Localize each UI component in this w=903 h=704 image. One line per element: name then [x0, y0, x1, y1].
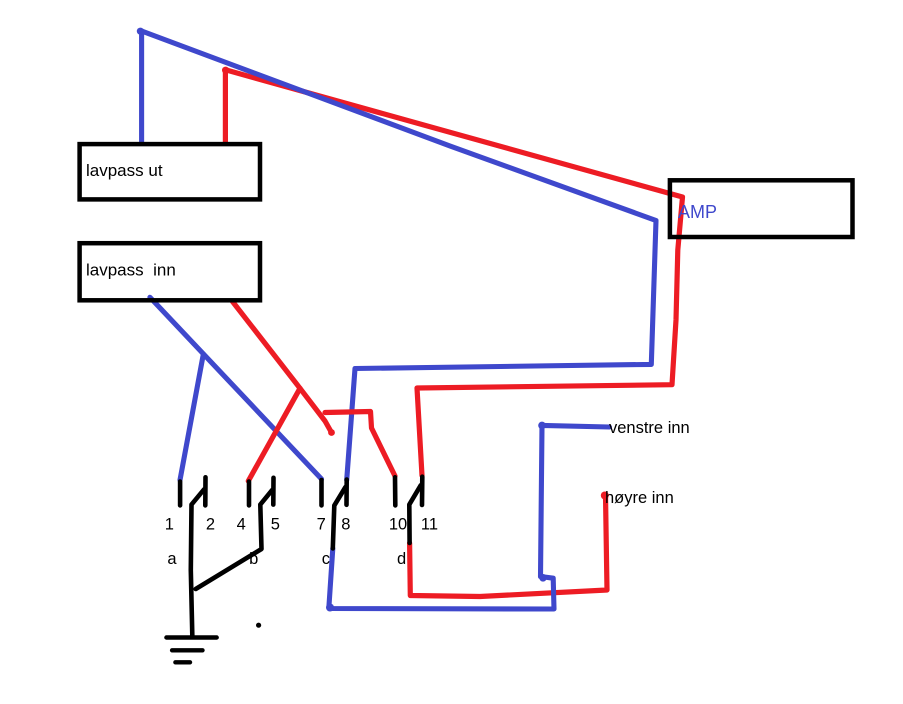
red stub end blob — [328, 429, 335, 436]
switch c pin 7 contact — [319, 480, 324, 505]
svg-text:7: 7 — [317, 516, 326, 534]
svg-text:AMP: AMP — [678, 202, 717, 222]
wire red: lavpass ut to AMP right channel — [225, 70, 682, 476]
red cap dot at hoyre inn — [601, 492, 609, 500]
switch b pin 5 contact — [271, 478, 276, 505]
svg-text:a: a — [167, 550, 177, 568]
switch d pin 10 contact — [393, 477, 398, 505]
ground bar 1 — [166, 635, 216, 639]
box AMP — [670, 180, 853, 237]
svg-text:1: 1 — [165, 516, 174, 534]
svg-text:11: 11 — [421, 516, 438, 534]
svg-text:venstre inn: venstre inn — [609, 419, 690, 437]
svg-text:c: c — [322, 550, 330, 568]
red cap dot — [222, 67, 229, 74]
wire blue: venstre inn loop from pole c — [329, 425, 609, 609]
svg-text:høyre inn: høyre inn — [605, 489, 674, 507]
svg-text:5: 5 — [271, 516, 280, 534]
switch d lever and pole — [409, 485, 421, 543]
wire blue: branch junction to pin 1 — [180, 356, 203, 480]
switch b pin 4 contact — [247, 482, 252, 506]
stray dot — [256, 623, 261, 628]
switch a pin 2 contact — [203, 477, 208, 505]
wire red: branch to pin 4 — [248, 388, 300, 481]
box lavpass ut — [80, 144, 260, 199]
svg-text:lavpass inn: lavpass inn — [86, 261, 176, 280]
svg-text:lavpass ut: lavpass ut — [86, 161, 163, 180]
svg-text:8: 8 — [341, 516, 350, 534]
switch c pin 8 contact — [344, 480, 349, 505]
switch a lever and pole to ground — [191, 489, 204, 635]
blue corner dot bottom — [326, 604, 334, 612]
blue cap dot — [137, 28, 144, 35]
blue cap dot at venstre inn — [538, 422, 546, 430]
ground bar 2 — [172, 648, 202, 652]
blue jog blob — [539, 574, 547, 582]
switch c lever and pole — [333, 487, 346, 548]
wire blue: lavpass inn to pin 7 — [150, 297, 322, 479]
switch b lever and pole joining pole a — [196, 490, 273, 589]
svg-text:4: 4 — [237, 516, 246, 534]
svg-text:d: d — [397, 550, 406, 568]
svg-text:10: 10 — [389, 516, 407, 534]
svg-text:b: b — [249, 550, 258, 568]
switch d pin 11 contact — [420, 477, 425, 505]
ground bar 3 — [175, 660, 190, 664]
svg-text:2: 2 — [206, 516, 215, 534]
box lavpass inn — [80, 243, 260, 300]
wire blue: lavpass ut to AMP left channel, down to pin 8 — [142, 31, 656, 480]
wire red: short tap to pin 10 — [325, 412, 395, 477]
wire red: lavpass inn diagonal with stub end — [233, 302, 332, 433]
switch a pin 1 contact — [178, 482, 183, 506]
wire red: hoyre inn loop from pole d — [410, 495, 607, 597]
